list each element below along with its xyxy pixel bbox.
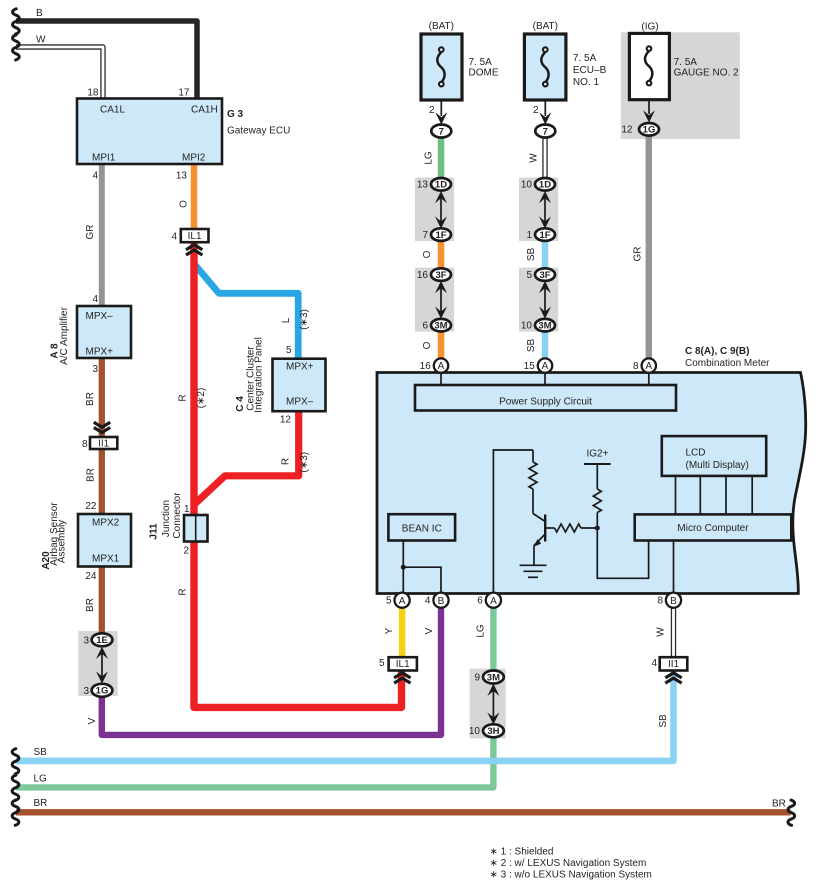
svg-text:2: 2 <box>429 105 435 116</box>
svg-text:IG2+: IG2+ <box>587 449 609 460</box>
svg-text:A: A <box>399 596 406 607</box>
svg-text:B: B <box>670 596 677 607</box>
svg-text:10: 10 <box>521 321 533 332</box>
svg-text:3F: 3F <box>539 270 550 281</box>
svg-text:O: O <box>422 341 433 349</box>
svg-text:V: V <box>424 627 435 634</box>
svg-text:18: 18 <box>87 87 99 98</box>
svg-text:GAUGE NO. 2: GAUGE NO. 2 <box>674 68 739 79</box>
svg-text:B: B <box>438 596 445 607</box>
svg-text:C 8(A), C 9(B): C 8(A), C 9(B) <box>685 346 749 357</box>
svg-text:ECU–B: ECU–B <box>573 65 607 76</box>
svg-text:1F: 1F <box>539 230 550 241</box>
svg-text:Integration Panel: Integration Panel <box>254 337 265 413</box>
svg-text:GR: GR <box>85 225 96 240</box>
svg-text:(Multi Display): (Multi Display) <box>686 460 749 471</box>
svg-text:R: R <box>177 394 188 401</box>
svg-text:2: 2 <box>183 546 189 557</box>
svg-text:LG: LG <box>34 773 48 784</box>
svg-text:13: 13 <box>417 180 429 191</box>
svg-text:LG: LG <box>424 151 435 165</box>
svg-text:9: 9 <box>474 672 480 683</box>
svg-text:C 4: C 4 <box>235 396 246 412</box>
svg-text:O: O <box>178 200 189 208</box>
svg-text:LCD: LCD <box>686 447 706 458</box>
svg-text:Gateway ECU: Gateway ECU <box>227 126 290 137</box>
svg-text:A: A <box>438 361 445 372</box>
svg-text:4: 4 <box>92 171 98 182</box>
svg-text:Junction: Junction <box>161 500 172 537</box>
svg-text:5: 5 <box>386 596 392 607</box>
svg-text:IL1: IL1 <box>396 659 410 670</box>
svg-text:A: A <box>490 596 497 607</box>
svg-text:(BAT): (BAT) <box>429 21 454 32</box>
svg-text:15: 15 <box>524 361 536 372</box>
svg-text:A: A <box>645 361 652 372</box>
svg-text:R: R <box>177 588 188 595</box>
svg-text:7. 5A: 7. 5A <box>469 57 493 68</box>
svg-text:24: 24 <box>85 571 97 582</box>
svg-text:4: 4 <box>651 658 657 669</box>
svg-text:B: B <box>36 8 43 19</box>
svg-text:∗ 3 : w/o LEXUS Navigation Sys: ∗ 3 : w/o LEXUS Navigation System <box>490 869 652 880</box>
svg-text:CA1H: CA1H <box>191 105 218 116</box>
svg-text:3: 3 <box>83 686 89 697</box>
svg-text:7. 5A: 7. 5A <box>674 57 698 68</box>
svg-text:13: 13 <box>176 171 188 182</box>
svg-text:NO. 1: NO. 1 <box>573 77 600 88</box>
svg-text:7: 7 <box>439 126 444 137</box>
svg-text:W: W <box>656 627 667 637</box>
svg-text:3M: 3M <box>487 672 500 683</box>
svg-text:1D: 1D <box>539 180 551 191</box>
svg-text:MPX–: MPX– <box>286 397 314 408</box>
svg-text:5: 5 <box>286 345 292 356</box>
svg-text:(∗3): (∗3) <box>299 452 310 473</box>
svg-text:Connector: Connector <box>172 492 183 539</box>
svg-text:4: 4 <box>92 294 98 305</box>
svg-text:IL1: IL1 <box>188 231 202 242</box>
svg-text:3M: 3M <box>434 321 447 332</box>
svg-text:1E: 1E <box>96 635 108 646</box>
svg-text:22: 22 <box>85 501 97 512</box>
svg-text:3H: 3H <box>487 726 499 737</box>
svg-text:10: 10 <box>521 180 533 191</box>
svg-text:L: L <box>281 317 292 323</box>
svg-text:GR: GR <box>633 247 644 262</box>
svg-text:O: O <box>422 250 433 258</box>
svg-text:BR: BR <box>34 798 48 809</box>
svg-text:7: 7 <box>543 126 548 137</box>
svg-text:MPX–: MPX– <box>86 311 114 322</box>
svg-text:V: V <box>87 717 98 724</box>
svg-text:2: 2 <box>533 105 539 116</box>
svg-text:MPI1: MPI1 <box>92 152 116 163</box>
svg-text:∗ 1 : Shielded: ∗ 1 : Shielded <box>490 846 554 857</box>
svg-text:(∗2): (∗2) <box>196 388 207 409</box>
svg-text:1: 1 <box>184 504 190 515</box>
svg-text:12: 12 <box>621 125 633 136</box>
svg-text:16: 16 <box>420 361 432 372</box>
svg-text:8: 8 <box>633 361 639 372</box>
svg-text:6: 6 <box>422 321 428 332</box>
svg-text:A 8: A 8 <box>50 343 61 359</box>
svg-text:BR: BR <box>86 468 97 482</box>
svg-text:1: 1 <box>526 230 532 241</box>
svg-text:∗ 2 : w/ LEXUS Navigation Syst: ∗ 2 : w/ LEXUS Navigation System <box>490 858 647 869</box>
svg-text:4: 4 <box>425 596 431 607</box>
svg-text:A: A <box>542 361 549 372</box>
svg-text:Y: Y <box>384 627 395 634</box>
svg-text:1G: 1G <box>96 686 109 697</box>
svg-text:BR: BR <box>85 392 96 406</box>
svg-text:Combination Meter: Combination Meter <box>685 358 770 369</box>
svg-text:4: 4 <box>171 232 177 243</box>
svg-text:BR: BR <box>85 598 96 612</box>
svg-text:II1: II1 <box>98 439 110 450</box>
svg-text:SB: SB <box>658 714 669 728</box>
svg-text:3F: 3F <box>435 270 446 281</box>
svg-text:A20: A20 <box>41 551 52 570</box>
svg-text:MPX+: MPX+ <box>286 362 314 373</box>
svg-text:MPX+: MPX+ <box>86 347 114 358</box>
svg-text:BR: BR <box>772 799 786 810</box>
svg-text:16: 16 <box>417 270 429 281</box>
svg-text:12: 12 <box>280 414 292 425</box>
svg-text:10: 10 <box>469 726 481 737</box>
svg-text:8: 8 <box>657 596 663 607</box>
svg-text:W: W <box>528 153 539 163</box>
svg-text:Micro Computer: Micro Computer <box>677 523 749 534</box>
svg-text:1F: 1F <box>435 230 446 241</box>
svg-text:SB: SB <box>526 339 537 353</box>
svg-text:5: 5 <box>526 270 532 281</box>
svg-text:3: 3 <box>83 635 89 646</box>
svg-text:R: R <box>280 458 291 465</box>
svg-text:LG: LG <box>475 624 486 638</box>
svg-text:8: 8 <box>82 439 88 450</box>
svg-text:(BAT): (BAT) <box>533 21 558 32</box>
svg-text:Assembly: Assembly <box>57 520 68 563</box>
svg-text:MPX2: MPX2 <box>92 518 120 529</box>
svg-text:SB: SB <box>526 248 537 262</box>
svg-text:BEAN IC: BEAN IC <box>402 523 442 534</box>
svg-text:5: 5 <box>379 658 385 669</box>
svg-text:3: 3 <box>92 364 98 375</box>
svg-text:G 3: G 3 <box>227 109 244 120</box>
svg-text:W: W <box>36 35 46 46</box>
svg-text:1G: 1G <box>643 125 656 136</box>
svg-text:17: 17 <box>178 87 190 98</box>
svg-text:CA1L: CA1L <box>100 105 125 116</box>
svg-text:1D: 1D <box>435 180 447 191</box>
svg-text:Power Supply Circuit: Power Supply Circuit <box>499 396 592 407</box>
svg-text:(∗3): (∗3) <box>299 309 310 330</box>
svg-text:3M: 3M <box>538 321 551 332</box>
svg-text:6: 6 <box>477 596 483 607</box>
svg-text:7. 5A: 7. 5A <box>573 53 597 64</box>
svg-text:MPI2: MPI2 <box>182 152 206 163</box>
svg-text:7: 7 <box>422 230 428 241</box>
svg-text:SB: SB <box>34 747 48 758</box>
svg-text:J11: J11 <box>149 523 160 540</box>
svg-text:II1: II1 <box>668 659 680 670</box>
svg-text:MPX1: MPX1 <box>92 554 120 565</box>
svg-text:DOME: DOME <box>469 68 499 79</box>
svg-text:(IG): (IG) <box>641 22 658 33</box>
